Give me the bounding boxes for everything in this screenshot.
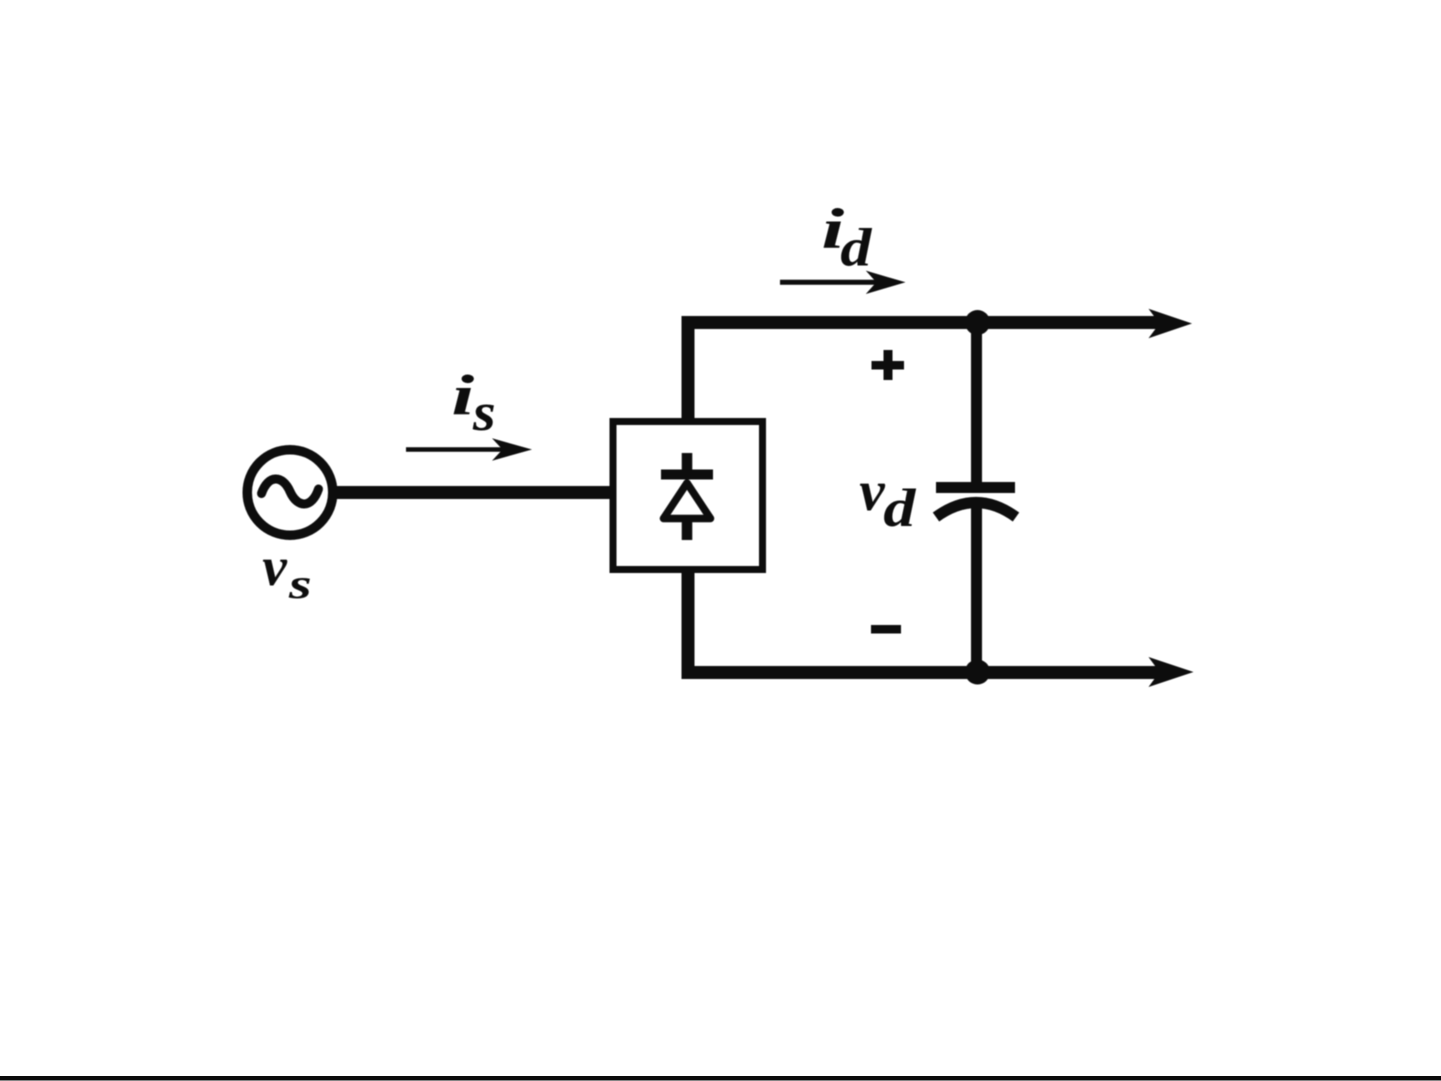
- output arrow bottom: [1149, 657, 1194, 687]
- label i_d: [822, 198, 873, 278]
- arrow i_s: [406, 438, 532, 460]
- label +: [872, 350, 905, 380]
- wire rectifier bottom to bottom rail: [688, 570, 1160, 673]
- svg-text:i: i: [452, 365, 475, 428]
- label i_s: [452, 365, 496, 443]
- ac source vs: [247, 450, 333, 536]
- node top junction: [965, 310, 990, 335]
- rectifier box: [613, 422, 763, 570]
- svg-text:s: s: [288, 562, 312, 608]
- wire source to rectifier: [332, 486, 613, 499]
- svg-text:v: v: [859, 460, 885, 523]
- node bottom junction: [965, 660, 990, 685]
- arrow i_d: [780, 271, 906, 294]
- wire rectifier top to top rail: [688, 323, 1160, 422]
- diode D1: [661, 453, 713, 540]
- svg-text:d: d: [883, 478, 916, 538]
- label v_s: [262, 536, 311, 608]
- svg-text:s: s: [472, 382, 496, 442]
- label v_d: [859, 460, 916, 538]
- label minus: [871, 625, 901, 634]
- capacitor Cd: [936, 322, 1016, 672]
- svg-text:d: d: [840, 218, 872, 278]
- svg-text:v: v: [262, 536, 287, 597]
- output arrow top: [1149, 309, 1193, 338]
